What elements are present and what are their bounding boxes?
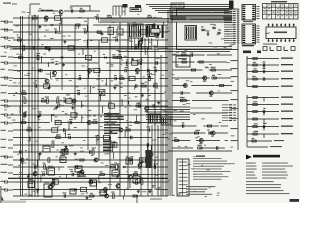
ground [141,160,144,163]
resistor R10 [19,54,23,58]
wire [191,85,215,87]
resistor R56 [253,97,257,99]
resistor R50 [80,8,84,12]
wire [199,147,225,149]
wire [29,138,31,142]
capacitor C38 [76,165,77,168]
wire [66,114,111,116]
wire [128,101,130,105]
ground [62,63,65,66]
resistor R34 [51,141,54,148]
wire [19,40,21,47]
pin labels [257,6,260,43]
capacitor C15 [41,69,42,72]
capacitor C37 [90,150,91,153]
capacitor C27 [24,111,27,116]
capacitor C5 [141,38,142,41]
inductor L1 [41,10,47,11]
diode D1 [154,17,156,19]
wire [129,182,131,188]
wire [172,147,193,149]
ground [27,175,30,178]
ic U38 [48,166,55,175]
net label [281,126,293,127]
wire [160,55,162,196]
resistor R62 [252,138,257,142]
wire [157,137,168,139]
net label [1,85,14,86]
resistor R2 [33,15,37,19]
ic U31 [146,26,160,36]
capacitor C14 [125,67,128,72]
pin label [222,115,236,116]
net label [1,77,14,79]
resistor R26 [24,113,26,117]
diode D11 [74,188,76,190]
title SCH-CTM-3450-16 [253,155,280,158]
wire [172,92,190,94]
wire [246,134,248,147]
wire [81,101,83,108]
wire [168,150,232,152]
resistor R13 [117,54,121,58]
ground [141,94,144,97]
capacitor C13 [38,69,39,72]
wire [115,6,117,16]
ground [39,152,42,155]
ic U21 [81,187,87,191]
net label [242,45,254,46]
resistor R36 [60,149,64,153]
wire [34,39,79,41]
resistor R57 [253,101,257,105]
ic U43 [90,180,97,186]
wire [113,189,152,191]
wire [46,18,48,22]
wire [149,6,229,8]
wire [247,104,279,106]
transistor Q17 [103,188,107,194]
wire [147,48,149,55]
resistor R8 [46,47,50,49]
wire [121,6,123,16]
ic U13 [55,120,61,124]
wire [112,174,141,176]
transistor Q6 [88,69,92,75]
wire [220,125,228,127]
transistor Q14 [128,175,132,181]
legend text [246,181,290,194]
ic U11 [108,104,114,108]
wire [247,86,279,88]
wire [95,122,139,124]
wire [157,40,159,47]
capacitor C39 [154,163,158,168]
connector J1 [242,5,256,21]
node N2 [147,47,148,48]
transistor Q16 [51,183,55,189]
wire [29,4,31,15]
node N9 [136,195,137,196]
wire [127,20,129,190]
net label [281,86,293,87]
capacitor C59 [180,97,184,102]
wire [106,79,108,87]
capacitor C52 [263,61,266,66]
resistor R47 [90,193,94,197]
resistor R46 [140,178,143,185]
diode D8 [130,159,132,161]
resistor R22 [45,97,49,104]
wire [114,24,156,26]
capacitor C53 [263,68,266,73]
page edge shadow [0,186,2,203]
capacitor C46 [63,192,67,197]
capacitor C31 [147,126,151,131]
net label [1,189,14,191]
ic U1 [55,16,61,20]
net label [231,99,238,100]
diode D3 [61,56,63,58]
transistor Q31 [138,163,142,169]
diode D10 [90,181,92,183]
wire [61,151,94,153]
bus [246,56,248,87]
wire [247,146,268,148]
wire [77,25,79,29]
wire [58,25,60,33]
ic U8 [129,76,135,80]
resistor R67 [191,69,195,71]
net label [1,29,14,31]
wire [89,5,91,11]
wire [172,140,190,142]
block outline [177,9,239,50]
ic U41 [60,155,66,163]
resistor R48 [111,192,114,199]
pin label [224,15,239,16]
node N7 [112,144,113,145]
wire [65,131,67,138]
page fold mark [0,193,5,204]
wire [209,69,232,71]
resistor R66 [211,67,216,71]
wire [13,17,59,19]
net label [1,105,14,107]
wire [172,85,187,87]
capacitor C8 [33,46,34,49]
ic U48 [100,190,107,195]
resistor R11 [36,53,40,60]
resistor R61 [253,131,258,135]
ic U37 [43,146,50,152]
wire [13,166,41,168]
ic U36 [162,117,172,125]
wire [149,72,151,79]
capacitor C51 [217,29,221,33]
transistor Q9 [145,107,149,113]
wire [64,10,100,12]
pin label [224,40,239,41]
net label [1,130,14,131]
wire [57,137,109,139]
transistor Q20 [203,76,207,82]
net label [281,133,293,134]
wire [84,47,127,49]
connector J4 [257,51,261,54]
ic U42 [75,166,82,172]
pin label [224,20,239,21]
net label [1,139,14,140]
capacitor C35 [147,143,148,146]
pin label [222,120,236,121]
wire [86,40,88,48]
transistor Q26 [48,185,52,189]
wire [109,25,111,190]
ic U16 [111,143,117,147]
wire [203,125,219,127]
transistor Q23 [211,131,215,137]
wire [145,166,168,168]
transistor Q4 [135,69,139,75]
ground [48,48,51,51]
wire [13,114,33,116]
wire [66,175,68,179]
wire [165,25,167,196]
wire [151,125,153,196]
net label [281,64,293,65]
transistor Q19 [59,10,63,16]
wire [154,160,156,167]
wire [158,47,168,49]
wire [13,70,168,72]
wire [13,39,34,41]
wire [169,8,171,196]
resistor R27 [21,119,25,123]
capacitor C56 [263,123,267,128]
resistor R5 [76,24,80,26]
resistor R4 [132,22,136,26]
capacitor C58 [181,91,182,94]
wire [13,129,168,131]
page number [290,199,300,202]
bus [128,38,152,50]
wire [102,106,104,114]
wire [197,61,227,63]
wire [112,6,114,16]
capacitor C24 [153,104,154,107]
ic U32 [162,25,164,38]
resistor R35 [92,148,95,155]
wire [38,10,58,12]
capacitor C29 [69,119,73,124]
capacitor C2 [153,21,155,26]
wire [118,137,152,139]
bus band [98,18,232,23]
wire [82,48,84,55]
resistor R55 [253,86,257,88]
transistor Q28 [80,170,84,176]
resistor R21 [57,97,60,104]
transistor Q11 [87,121,91,125]
capacitor C22 [77,90,80,95]
wire [49,72,51,79]
ic U18 [139,158,145,162]
resistor R45 [134,178,138,185]
net label [1,37,14,39]
diode D2 [51,24,53,26]
terminal table [263,1,299,19]
transistor Q3 [139,41,143,47]
wire [158,114,168,116]
wire [171,10,173,196]
wire [162,125,164,196]
resistor R58 [253,111,257,113]
pin label [224,33,239,34]
resistor R32 [97,135,99,139]
wire [144,48,146,55]
ic U39 [28,179,35,188]
resistor R25 [136,103,140,107]
wire [40,175,42,182]
wire [156,115,158,123]
ground [85,196,88,199]
ic U5 [85,55,91,59]
wire [139,122,167,124]
net label [274,140,284,141]
capacitor C34 [112,141,115,146]
wire [172,77,210,79]
wire [13,85,168,87]
resistor R23 [23,97,27,104]
wire [13,189,62,191]
resistor R9 [23,46,25,50]
net label [1,100,14,102]
wire [134,86,136,90]
resistor R15 [119,75,124,79]
transistor Q32 [20,158,24,164]
wire [19,106,21,114]
wire [124,131,126,138]
wire [196,140,220,142]
wire [95,182,97,189]
wire [119,15,121,196]
resistor R18 [98,89,102,96]
wire [13,78,46,80]
capacitor C36 [20,150,21,153]
wire [58,167,60,171]
ground [100,32,103,35]
capacitor C1 [96,14,98,19]
capacitor C23 [63,97,65,102]
paper background [0,0,300,203]
ic U35 [149,114,160,123]
net label [1,156,14,158]
wire [62,189,113,191]
notes text [193,156,235,180]
capacitor C3 [54,28,57,33]
capacitor C32 [68,134,71,139]
resistor R65 [182,59,187,63]
pin label [224,13,239,14]
wire [8,177,168,179]
wire [80,174,112,176]
resistor R16 [142,83,147,87]
wire [147,55,149,196]
ic U15 [103,135,109,139]
ic U47 [70,189,76,194]
capacitor C40 [35,165,36,168]
resistor R43 [133,171,138,175]
node N4 [29,137,30,138]
resistor R64 [199,61,203,63]
resistor R54 [252,76,257,80]
transistor Q29 [94,158,98,162]
wire [155,10,229,12]
resistor R70 [182,97,187,101]
net label [12,4,17,5]
wire [46,167,48,175]
wire [263,98,265,102]
wire [124,166,145,168]
wire [150,145,152,152]
wire [113,5,125,7]
diode D9 [123,166,125,168]
ic U2 [140,30,146,34]
net label [281,71,293,72]
resistor R44 [99,171,104,175]
ic U10 [66,99,72,103]
resistor R69 [219,85,223,87]
signal labels [103,141,112,152]
capacitor C44 [70,171,73,176]
net label [1,92,14,93]
resistor R39 [80,159,84,161]
wire [121,99,123,106]
ground [74,152,77,155]
diode D6 [105,121,107,123]
transformer T1 [177,159,189,196]
wire [13,93,51,95]
resistor R73 [174,137,179,141]
wire [41,56,43,63]
wire [209,132,228,134]
resistor R68 [212,75,216,79]
resistor R7 [17,37,22,41]
net label [1,147,14,148]
pin label [222,107,236,108]
capacitor C60 [182,122,185,127]
capacitor C28 [38,111,41,116]
wire [124,6,126,16]
wire [68,123,70,130]
ic U46 [133,176,140,183]
wire [99,94,101,102]
wire [47,24,88,26]
pin label [224,24,239,25]
wire [159,62,168,64]
wire [110,138,112,142]
wire [70,5,90,7]
net label [231,128,238,129]
wire [20,199,92,201]
resistor R71 [207,125,211,127]
pin label [222,110,236,111]
pin label [224,38,239,39]
ic U6 [132,61,138,65]
value labels [11,21,169,194]
wire [13,181,168,183]
